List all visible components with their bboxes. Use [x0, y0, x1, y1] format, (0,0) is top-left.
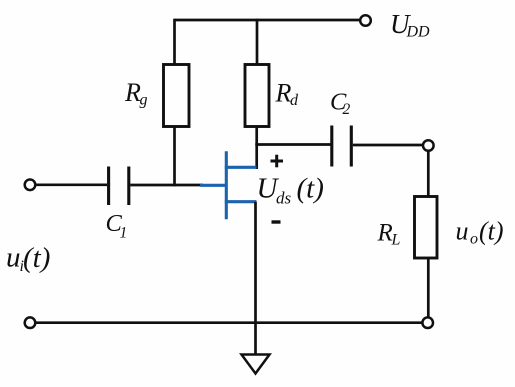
- terminal U_DD: [360, 15, 371, 26]
- label uo(t): [456, 217, 504, 248]
- wire Rg bottom to gate node: [173, 127, 176, 187]
- svg-text:DD: DD: [406, 24, 431, 41]
- wire C1 to gate: [130, 184, 203, 187]
- source lead: [225, 200, 257, 203]
- capacitor C2: [332, 126, 352, 167]
- terminal output bottom: [422, 317, 433, 328]
- label U_DD: [390, 9, 430, 41]
- label C2: [330, 89, 351, 119]
- wire Rd bottom to drain: [255, 127, 258, 170]
- transistor JFET (blue): [200, 151, 257, 219]
- svg-text:L: L: [391, 232, 401, 249]
- wire drain node to C2: [255, 143, 330, 146]
- capacitor C1: [109, 167, 129, 206]
- wire input to C1: [35, 183, 107, 186]
- svg-text:(t): (t): [479, 217, 504, 246]
- svg-text:R: R: [377, 220, 393, 247]
- wire Rg top: [173, 19, 176, 65]
- label ui(t): [6, 242, 50, 276]
- svg-text:ds: ds: [276, 189, 292, 208]
- channel bar: [225, 151, 228, 219]
- svg-text:o: o: [470, 231, 478, 248]
- terminal bottom left: [25, 317, 36, 328]
- svg-text:u: u: [456, 217, 469, 246]
- label +: [271, 155, 284, 168]
- svg-text:(t): (t): [23, 242, 50, 274]
- svg-text:u: u: [6, 242, 21, 274]
- svg-text:1: 1: [120, 225, 128, 242]
- terminal output top: [423, 140, 434, 151]
- wire source down to bottom rail and ground: [254, 202, 257, 357]
- label Rd: [275, 79, 300, 110]
- label -: [272, 220, 281, 223]
- wire terminal to RL: [427, 151, 430, 197]
- svg-text:2: 2: [343, 101, 351, 118]
- wire RL to bottom terminal: [427, 258, 430, 318]
- wire C2 to output terminal: [353, 144, 423, 147]
- drain lead: [225, 166, 257, 169]
- gate lead: [200, 184, 226, 187]
- svg-text:R: R: [275, 79, 292, 108]
- label Rg: [124, 78, 148, 109]
- svg-text:(t): (t): [297, 173, 324, 205]
- ground: [242, 355, 270, 374]
- svg-text:g: g: [140, 92, 148, 109]
- wire bottom rail: [35, 321, 422, 324]
- terminal input: [25, 180, 36, 191]
- resistor Rg: [164, 65, 190, 127]
- label C1: [106, 210, 128, 242]
- label Uds(t): [257, 173, 324, 208]
- wire top rail U_DD: [175, 19, 361, 22]
- label RL: [377, 220, 401, 249]
- resistor RL: [415, 197, 438, 259]
- svg-text:R: R: [124, 78, 141, 107]
- resistor Rd: [245, 65, 269, 127]
- svg-text:d: d: [290, 92, 299, 109]
- wire Rd top: [256, 19, 259, 65]
